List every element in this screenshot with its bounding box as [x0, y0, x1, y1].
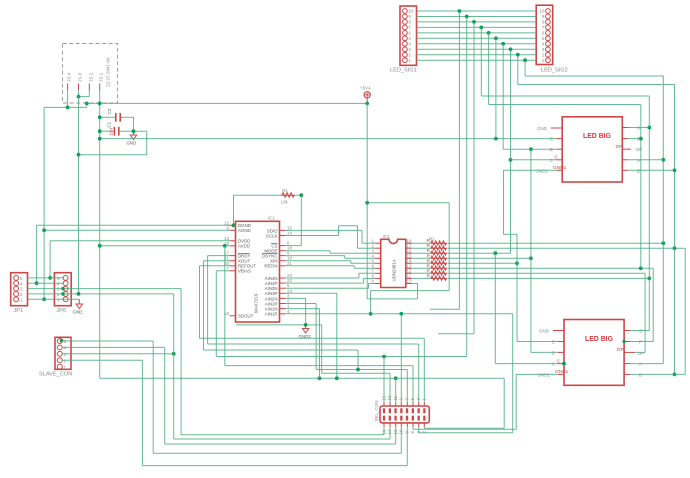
wire R2 row5 E2 net: [448, 262, 517, 264]
wire C1 row: [511, 159, 557, 161]
svg-text:+5V4: +5V4: [360, 86, 371, 91]
connector SEL_CON 2x8 header: [374, 400, 429, 422]
overline DSYNC: [262, 253, 278, 255]
IC1 right pin stubs: [280, 230, 286, 313]
wire R2 row3 C-net: [448, 252, 511, 254]
LED BIG1 pin labels: [535, 126, 553, 173]
wire rail y439: [174, 438, 390, 440]
wire DP2 vertical: [644, 273, 646, 352]
svg-text:GND3: GND3: [299, 334, 312, 339]
IC2 left numbers: [371, 238, 374, 283]
wire y338.3 REFOUT to p1: [200, 337, 425, 339]
drop n1: [466, 17, 468, 357]
node JS-1 x top rail: [98, 102, 102, 106]
wire C1 left: [100, 130, 114, 132]
wire rail y434.7: [181, 434, 384, 436]
svg-text:SCLK: SCLK: [266, 233, 278, 238]
wire C1 right down: [146, 131, 148, 155]
svg-text:MAX7219: MAX7219: [254, 293, 259, 313]
wire V44.1 down to JP1 row1: [43, 107, 45, 299]
wire R1 right: [294, 194, 301, 196]
node C2 pin: [562, 362, 566, 366]
wire R2 row6 F-net: [448, 267, 654, 269]
wire G-net: [648, 96, 650, 331]
svg-text:22-27-2041-04: 22-27-2041-04: [106, 57, 111, 87]
svg-text:10: 10: [408, 9, 414, 14]
overline DRDY: [238, 253, 250, 255]
svg-text:15: 15: [381, 395, 386, 401]
svg-text:LED BIG: LED BIG: [583, 133, 611, 140]
ground GND3 under IC1: [299, 325, 312, 339]
svg-text:10: 10: [407, 279, 413, 284]
svg-text:12: 12: [393, 429, 398, 435]
wire y344 DRDY to p3: [208, 343, 419, 345]
wire D1 row: [503, 148, 556, 150]
wires IC2 right to R2: [412, 243, 431, 278]
node JS-3/JS-2 join: [77, 95, 81, 99]
wire R2 row8 G-net: [448, 277, 650, 279]
node GND tap: [132, 129, 136, 133]
wire y365.6 AVDD to p5: [225, 365, 413, 367]
SEL_CON top pin numbers: [381, 395, 426, 401]
SEL_CON bottom pin numbers: [381, 429, 426, 435]
wire GND1_1 jog to E2: [503, 170, 505, 234]
wire B1 row: [628, 169, 674, 171]
wire GND3 line: [236, 324, 322, 326]
wire rail y465.6: [142, 465, 407, 467]
capacitor C1: [107, 121, 119, 136]
node V370.6 on AIN1P line: [369, 312, 373, 316]
svg-text:VBIAS: VBIAS: [238, 269, 251, 274]
wire SLAVE row3: [62, 353, 174, 355]
svg-text:JS-3: JS-3: [78, 72, 83, 82]
svg-text:10: 10: [399, 429, 404, 435]
wire +5V to IC2 pin10 loop: [367, 298, 417, 300]
svg-text:10: 10: [539, 9, 545, 14]
connector JP1: [11, 273, 28, 314]
wire loop p2 bottom: [503, 378, 505, 428]
wire AIN3P down to p11 line: [286, 292, 337, 294]
LED BIG1 right stubs: [622, 128, 631, 171]
svg-text:13: 13: [387, 395, 392, 401]
capacitor C2: [107, 108, 120, 122]
svg-text:F: F: [639, 340, 642, 345]
svg-text:16: 16: [381, 429, 386, 435]
svg-text:LED_SIG1: LED_SIG1: [390, 68, 417, 74]
wire AVDD branch down: [224, 246, 226, 366]
SEL_CON bottom pin stubs: [384, 423, 424, 427]
wire JP row4: [28, 282, 64, 284]
svg-text:GND1: GND1: [537, 372, 550, 377]
connector LED_SIG2: [536, 5, 568, 73]
svg-text:JP1: JP1: [14, 308, 24, 314]
node C1 tap: [98, 129, 102, 133]
wire rail y154.7: [79, 154, 147, 156]
wire AIN1N down: [286, 308, 320, 310]
resistor R1 10k: [281, 188, 295, 205]
svg-text:LED BIG: LED BIG: [585, 336, 613, 343]
svg-text:GND1: GND1: [555, 369, 569, 375]
svg-text:DP: DP: [616, 144, 623, 150]
svg-text:AIN1P: AIN1P: [265, 312, 278, 317]
svg-text:C: C: [557, 358, 561, 364]
wire SLAVE row5: [62, 340, 153, 342]
wire AGND joins V44.1: [44, 229, 229, 231]
node V44.1 end at JP row1: [42, 297, 46, 301]
wire F-net: [640, 105, 642, 269]
pin JS-3: [78, 84, 80, 91]
IC1 right pin names: [262, 228, 278, 316]
svg-text:JS-1: JS-1: [99, 72, 104, 82]
drop n5 E feed: [495, 38, 497, 138]
connector JP6: [54, 273, 71, 314]
wire AIN1P line y313.8: [286, 313, 513, 315]
wire C2 right: [121, 116, 134, 118]
ground GND at JP6: [73, 299, 83, 314]
svg-text:DP: DP: [617, 347, 624, 353]
LED BIG2 pin labels: [537, 329, 555, 378]
drop n9 A feed: [524, 60, 526, 76]
wire C-net vertical from C1: [510, 160, 512, 253]
wire DGND to JP6 row4: [37, 224, 230, 226]
wire top rail y103.4 to +5V: [87, 102, 367, 104]
wire DRDY west: [208, 255, 230, 257]
pin JS-2: [88, 84, 90, 91]
svg-text:SEL_CON: SEL_CON: [374, 400, 379, 421]
wire C1 right to GND junction: [120, 130, 147, 132]
svg-text:R1: R1: [282, 188, 288, 193]
node R1 right junction: [299, 193, 303, 197]
svg-text:UDN2981A: UDN2981A: [392, 259, 397, 281]
wire AIN4P to IC2 p8: [286, 282, 364, 284]
pin JS-1: [99, 84, 101, 91]
drop n0: [458, 11, 460, 309]
wire JP row2 long: [28, 293, 174, 295]
LED BIG2 right stubs: [624, 331, 634, 375]
wire rail y453.2: [153, 452, 401, 454]
IC1 right pin numbers: [287, 225, 293, 313]
svg-text:IC1: IC1: [268, 216, 276, 221]
node JS-4 junction: [66, 106, 70, 110]
wire C2 left: [100, 116, 115, 118]
wire XOUT west: [204, 260, 230, 262]
display LED BIG 1 body: [562, 117, 622, 182]
svg-text:IC2: IC2: [383, 234, 391, 239]
svg-text:JP6: JP6: [57, 308, 67, 314]
wire R1 left: [234, 194, 282, 196]
svg-text:E: E: [552, 340, 555, 345]
wire y356 VBIAS to p15 and n1: [216, 356, 466, 358]
IC1 left pin names: [238, 223, 256, 319]
wire JP row3 long: [28, 288, 182, 290]
wire y378.3 JS1 line: [100, 377, 505, 379]
wire MODE to IC2 p3: [286, 250, 330, 252]
resistor array R2: [427, 237, 447, 281]
node +5V tap on rail: [365, 102, 369, 106]
wire R2 row1 A-net: [448, 242, 664, 244]
svg-text:GND: GND: [127, 141, 137, 146]
ground GND (C1/C2): [127, 131, 137, 145]
wire GND1_2 pin run: [516, 373, 558, 375]
svg-text:LED_SIG2: LED_SIG2: [541, 68, 568, 74]
svg-text:10k: 10k: [281, 200, 289, 205]
svg-text:REFIN: REFIN: [264, 264, 277, 269]
drop n2: [473, 22, 475, 334]
wire H290.6: [371, 290, 450, 292]
LED BIG1 left stubs: [551, 128, 562, 170]
svg-text:10n: 10n: [109, 128, 115, 136]
wire V449.2: [448, 203, 450, 291]
wire REFOUT west: [200, 265, 230, 267]
node rail154: [77, 153, 81, 157]
svg-text:14: 14: [387, 429, 392, 435]
wire AIN3N to IC2 p9: [286, 287, 369, 289]
IC1 left pin stubs: [230, 225, 236, 315]
wire C-net vertical to C2: [494, 253, 496, 363]
node +5V branch: [365, 201, 369, 205]
wire G1 row: [628, 127, 649, 129]
svg-text:G: G: [639, 329, 643, 334]
pin JS-4: [67, 84, 69, 91]
drop n7 C feed: [510, 49, 512, 160]
wire AIN2N to GND3: [286, 297, 306, 299]
ic IC1 MAX7219 body: [236, 216, 280, 322]
svg-text:C2: C2: [107, 108, 112, 114]
LED BIG2 left stubs: [553, 331, 564, 375]
wire A1 row: [628, 159, 663, 161]
bus junction dots: [458, 9, 527, 62]
wire y369.5 AIN2P to p7: [316, 369, 407, 371]
IC2 right numbers: [407, 238, 413, 283]
wire VBIAS west: [216, 270, 229, 272]
wire JP row5: [28, 277, 64, 279]
node C2 tap: [98, 115, 102, 119]
bus wires between LED_SIG1 and LED_SIG2: [417, 11, 537, 60]
supply +5V4 symbol: [360, 86, 371, 102]
wire JS-1 long vertical: [99, 90, 101, 378]
wire H y107.4: [44, 106, 87, 108]
wire loop p4 bottom: [512, 314, 514, 433]
wire XIN to IC2 p5: [286, 260, 351, 262]
wire A-net: [662, 76, 664, 364]
node top rail left end: [85, 102, 89, 106]
wire GND3-net to p13: [322, 372, 390, 374]
svg-text:SLAVE_CON: SLAVE_CON: [39, 372, 72, 378]
display LED BIG 2 body: [564, 320, 624, 386]
IC2 right stubs: [406, 243, 412, 283]
svg-text:AGND: AGND: [238, 228, 251, 233]
connector JS dashed outline 22-27-2041-04: [63, 44, 118, 104]
wire DVDD to JP6 row5: [50, 240, 229, 242]
wire SLAVE row4: [62, 346, 165, 348]
svg-text:14: 14: [287, 231, 293, 236]
wire REFIN to IC2 p6: [286, 265, 355, 267]
svg-text:A: A: [639, 362, 642, 367]
drop n6 D feed: [502, 44, 504, 149]
wire AIN4N to IC2 p7: [286, 277, 359, 279]
svg-text:GND: GND: [73, 310, 83, 315]
wire JP row1: [28, 298, 80, 300]
svg-text:DP: DP: [638, 351, 644, 356]
wire y350 XOUT joins AIN2P line: [204, 349, 359, 351]
wire R1 to CS: [300, 195, 302, 245]
wire SDIO to IC2 p1: [286, 229, 362, 231]
wire SCLK to IC2 p2: [286, 235, 339, 237]
wire E1 row long: [100, 138, 557, 140]
svg-text:SDOUT: SDOUT: [238, 314, 254, 319]
wire +5V vertical: [366, 103, 368, 299]
wire R1 left down to DGND line: [233, 195, 235, 225]
svg-text:GND: GND: [539, 329, 550, 334]
drop n4 F feed: [488, 33, 490, 105]
wire AVDD long to JS-1 vertical: [100, 245, 230, 247]
wire branch to 449: [367, 202, 449, 204]
drop n3 G feed: [480, 27, 482, 96]
wire V370.6: [370, 291, 372, 314]
wire R2 row7 DP2: [448, 272, 645, 274]
ic IC2 UDN2981A body: [381, 234, 406, 288]
wire B-net: [674, 85, 676, 375]
wire JS-4 drop: [67, 90, 69, 107]
wire R2 row4 D-net: [448, 257, 531, 259]
svg-text:C1: C1: [107, 121, 112, 127]
SEL_CON top pin stubs: [384, 402, 424, 406]
connector SLAVE_CON: [39, 337, 72, 377]
wire D-net vertical to D2: [530, 149, 532, 352]
wire V78.5 down to JP row2: [78, 90, 80, 294]
wire DSYNC to IC2 p4: [286, 255, 345, 257]
overline CS: [271, 243, 278, 245]
drop n8 B feed: [517, 55, 519, 85]
svg-text:21: 21: [287, 261, 293, 266]
svg-text:DP: DP: [636, 147, 642, 152]
svg-text:JS-4: JS-4: [67, 72, 72, 82]
wire AIN2P down: [286, 303, 317, 305]
wire JS-2 jog: [88, 90, 90, 97]
IC1 left pin numbers: [224, 220, 230, 315]
wire F1 row: [628, 138, 641, 140]
wire SLAVE row2: [62, 359, 142, 361]
svg-text:AVDD: AVDD: [238, 244, 250, 249]
wire R2 row2 B-net: [448, 247, 686, 249]
wire rail y444: [165, 443, 396, 445]
wire GND1_1 row: [504, 169, 557, 171]
connector LED_SIG1: [390, 6, 417, 74]
svg-text:JS-2: JS-2: [89, 72, 94, 82]
svg-text:GND: GND: [537, 126, 548, 131]
wire JP6 row3 vertical: [180, 289, 182, 435]
svg-text:11: 11: [393, 395, 398, 400]
wire stub up to top rail: [86, 103, 88, 107]
svg-text:B: B: [639, 372, 642, 377]
IC2 left stubs: [375, 243, 381, 283]
wire JP6 row2 vertical: [173, 294, 175, 439]
